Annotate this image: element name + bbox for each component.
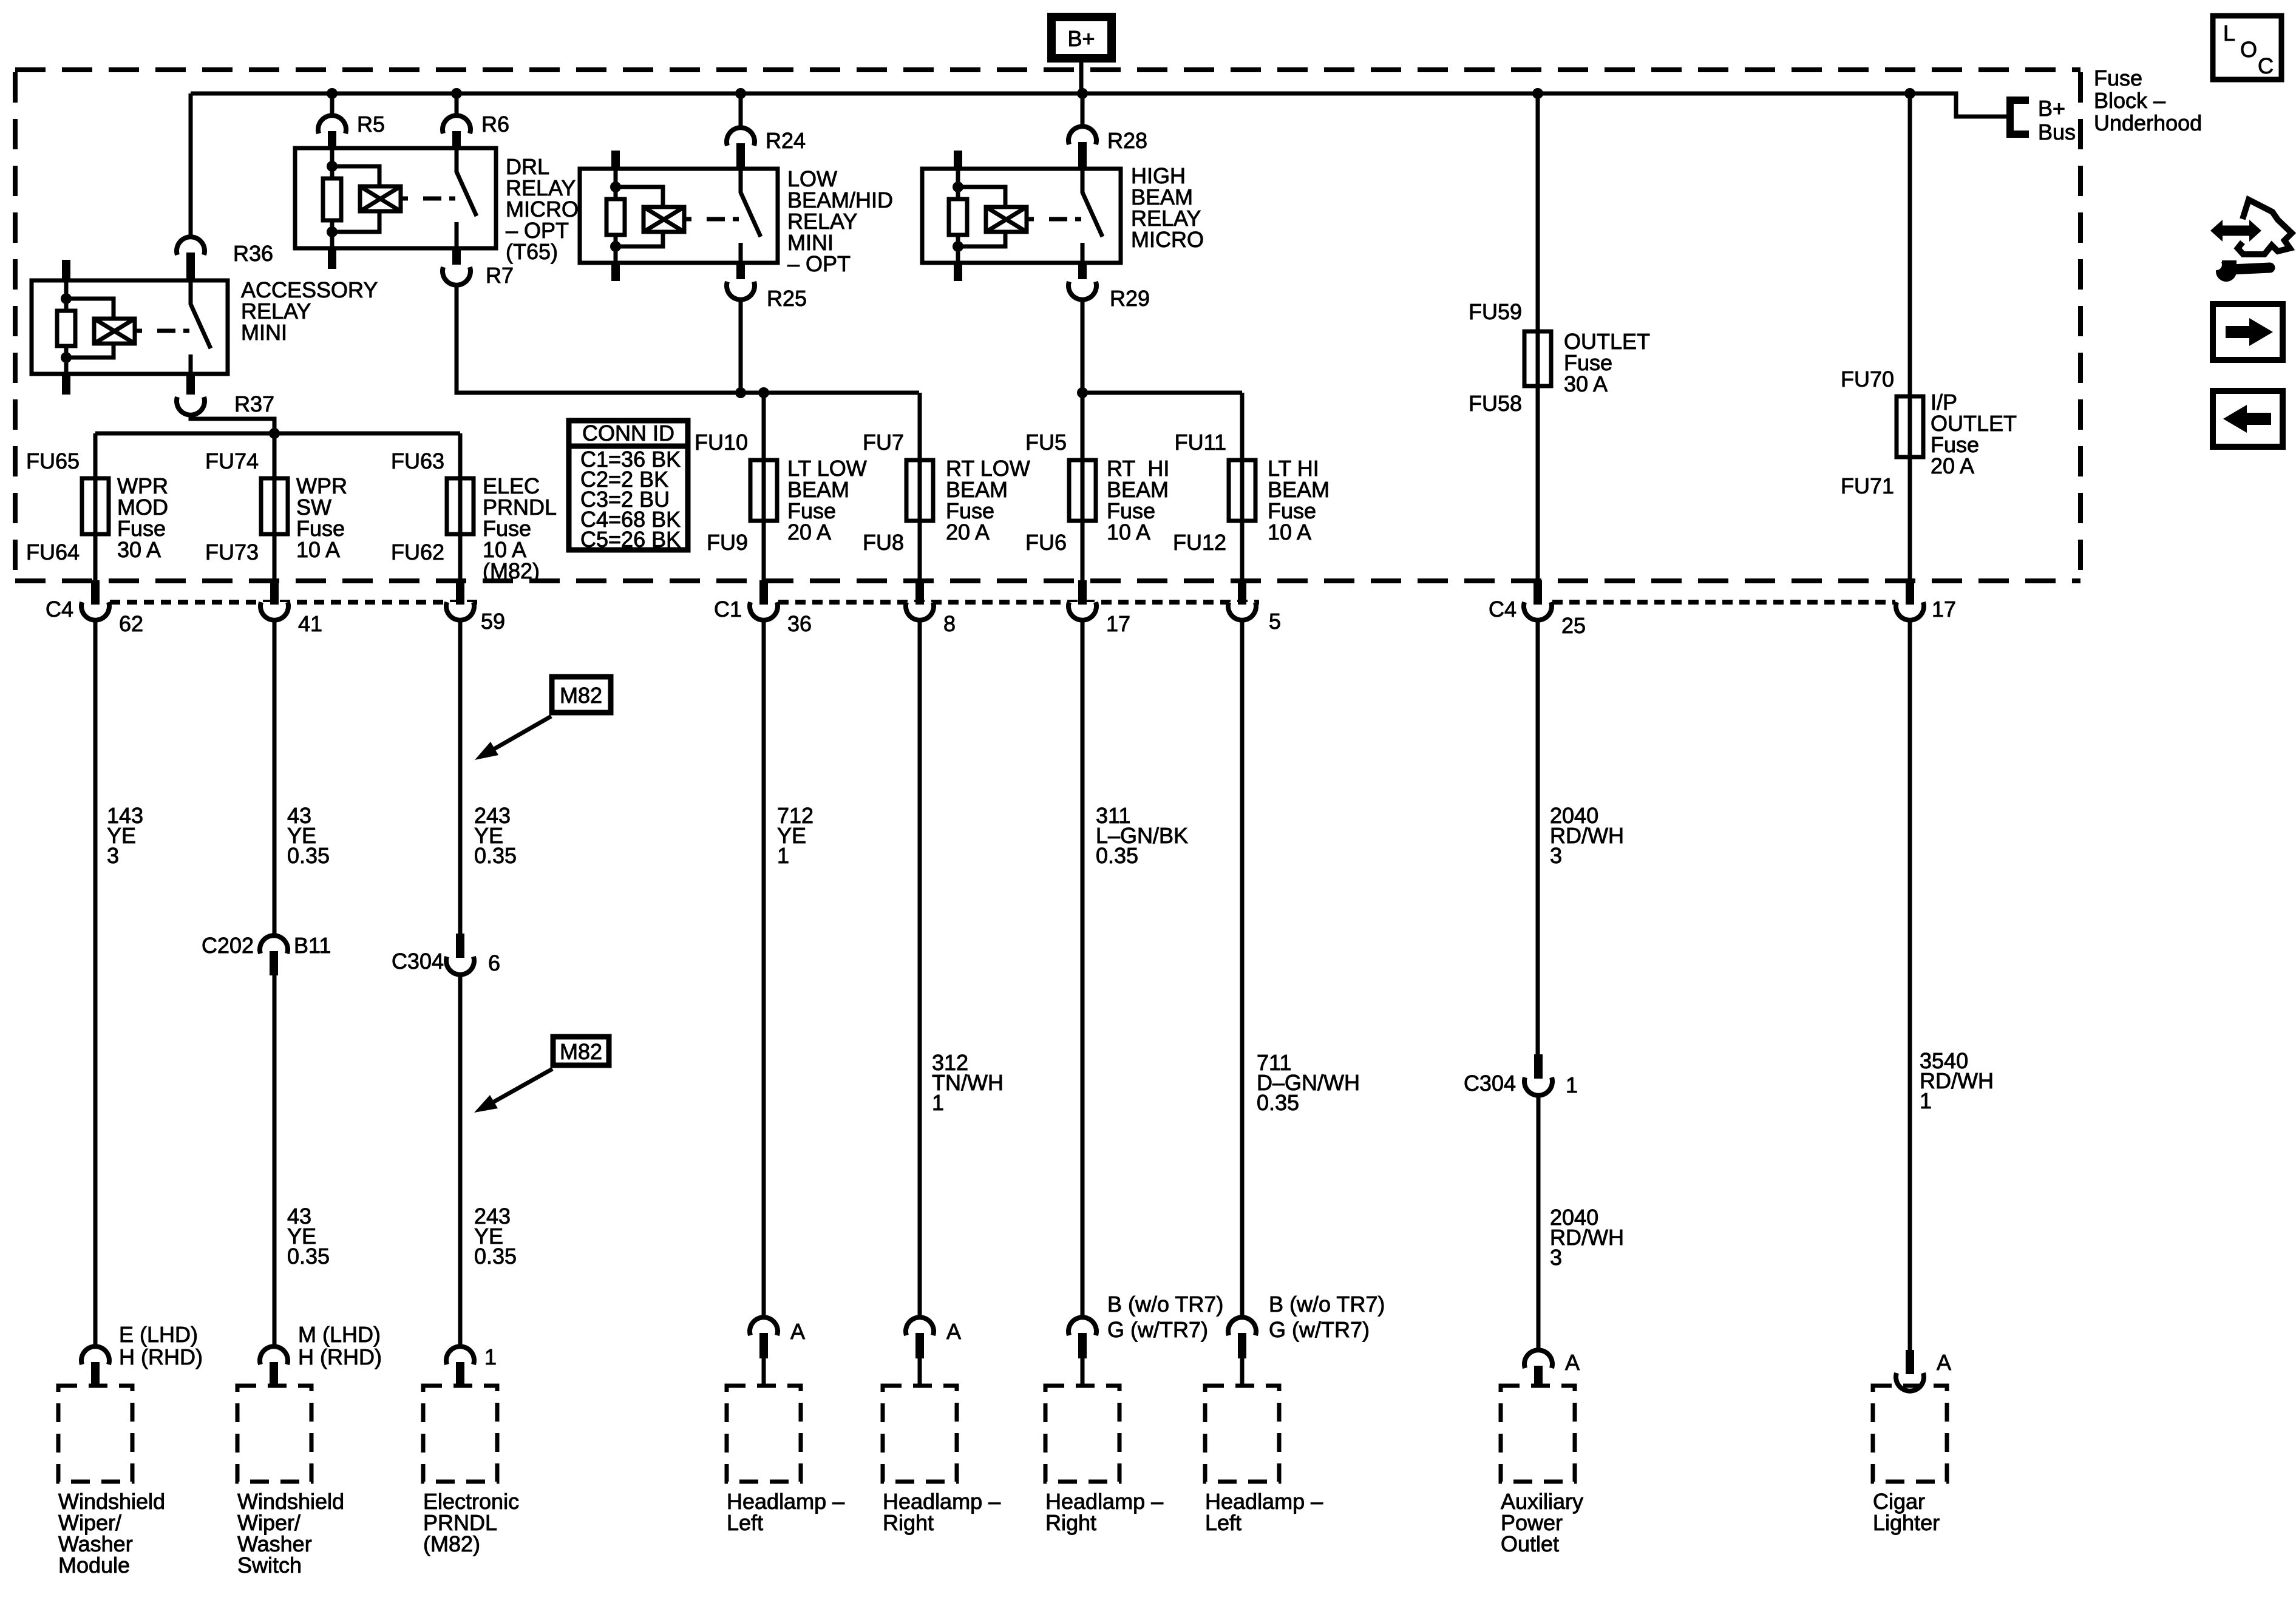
low beam relay actuating dashes <box>707 217 739 222</box>
svg-text:59: 59 <box>481 609 505 634</box>
svg-text:FU6: FU6 <box>1025 530 1067 555</box>
svg-text:0.35: 0.35 <box>1096 843 1138 868</box>
fuse RT HI BEAM fuse <box>1069 460 1096 521</box>
svg-text:1: 1 <box>484 1344 497 1369</box>
service icon wrench <box>2222 260 2237 271</box>
connector PRNDL pin 1 <box>446 1346 474 1364</box>
DRL relay switch <box>457 148 477 248</box>
svg-text:20 A: 20 A <box>1931 453 1974 478</box>
svg-text:CONN ID: CONN ID <box>582 421 674 446</box>
main B+ bus wire <box>191 92 1910 96</box>
fuse block dashed border left <box>13 72 18 581</box>
M82 callout 1 <box>552 677 611 713</box>
wire 311 L-GN/BK <box>1081 620 1085 1317</box>
high beam relay actuating dashes <box>1049 217 1081 222</box>
svg-text:62: 62 <box>119 611 143 636</box>
svg-text:30 A: 30 A <box>1564 371 1608 396</box>
wire bus down to R5 <box>330 93 335 115</box>
svg-text:FU7: FU7 <box>863 430 904 455</box>
high beam relay switch <box>1082 169 1102 263</box>
svg-text:B11: B11 <box>294 933 331 958</box>
M82 callout 2 <box>553 1037 609 1065</box>
svg-text:L: L <box>2223 21 2235 46</box>
connector C4 pin 25 <box>1524 602 1552 620</box>
svg-text:8: 8 <box>943 611 956 636</box>
svg-text:MINI: MINI <box>241 320 287 345</box>
svg-text:Fuse: Fuse <box>2094 66 2142 90</box>
svg-text:H (RHD): H (RHD) <box>298 1344 382 1369</box>
node bus/R24 <box>735 88 746 99</box>
accessory relay resistor <box>57 311 75 346</box>
connector C304 pin 6 <box>456 934 464 958</box>
accessory relay coil jumper wires <box>66 299 114 319</box>
svg-text:0.35: 0.35 <box>474 1244 517 1269</box>
svg-text:R24: R24 <box>766 128 806 153</box>
high beam relay resistor <box>949 199 967 235</box>
wire bus down to R28 <box>1081 93 1085 126</box>
fuse block dashed border top <box>15 67 2080 72</box>
wire OUTLET fuse column <box>1536 93 1540 580</box>
B+ battery feed terminal box <box>1051 17 1112 58</box>
svg-text:Right: Right <box>883 1510 934 1535</box>
component box windshield wiper/washer switch <box>237 1386 311 1482</box>
svg-text:R7: R7 <box>486 263 514 288</box>
svg-text:A: A <box>1565 1350 1580 1375</box>
wire bus down to R6 <box>455 93 459 115</box>
wire ELEC PRNDL fuse column <box>458 433 463 580</box>
high beam relay pin stub bottom-right <box>1078 263 1087 279</box>
wire 143 YE upper <box>93 620 98 1346</box>
wire 43 YE upper <box>273 620 277 935</box>
accessory relay node bottom <box>61 352 72 363</box>
wire WPR SW fuse column <box>273 433 277 580</box>
svg-text:FU8: FU8 <box>863 530 904 555</box>
connector R25 <box>727 282 755 300</box>
svg-text:FU9: FU9 <box>707 530 748 555</box>
svg-text:R29: R29 <box>1110 286 1150 311</box>
low beam relay node top <box>610 181 621 192</box>
svg-text:H (RHD): H (RHD) <box>119 1344 203 1369</box>
svg-text:C202: C202 <box>202 933 254 958</box>
high beam relay pin stub top-left <box>954 151 962 169</box>
M82 callout 2 leader arrow <box>493 1069 552 1102</box>
low beam relay pin stub top-left <box>611 151 620 169</box>
wiper fuse feed bus <box>95 432 460 436</box>
DRL relay coil <box>360 186 401 211</box>
svg-text:(T65): (T65) <box>506 239 558 264</box>
DRL relay coil jumper wires <box>332 166 379 186</box>
wire 3540 RD/WH <box>1908 620 1912 1350</box>
accessory relay actuating dashes <box>157 329 189 333</box>
wire RT HI BEAM fuse column <box>1081 393 1085 580</box>
svg-text:C5=26 BK: C5=26 BK <box>580 527 681 552</box>
svg-text:R36: R36 <box>233 241 273 266</box>
svg-text:O: O <box>2240 37 2257 62</box>
wire 712 YE <box>762 620 766 1317</box>
fuse block dashed border bottom <box>15 578 2080 583</box>
svg-text:17: 17 <box>1106 611 1130 636</box>
svg-text:G (w/TR7): G (w/TR7) <box>1107 1317 1208 1342</box>
connector C4 pin 59 <box>446 602 474 620</box>
DRL relay actuating dashes <box>423 197 455 201</box>
connector C4 pin 62 <box>81 602 109 620</box>
B+ Bus bracket <box>2010 100 2029 134</box>
svg-text:FU11: FU11 <box>1175 430 1226 455</box>
wire R37 to fuse feed bus <box>191 414 274 433</box>
connector C1 pin 5 <box>1228 602 1256 620</box>
svg-text:36: 36 <box>787 611 812 636</box>
wire WPR MOD fuse column <box>93 433 98 580</box>
node FU10 feed <box>758 387 769 398</box>
connector R7 <box>443 267 470 285</box>
connector R29 <box>1068 282 1096 300</box>
wire 243 YE upper <box>458 620 463 934</box>
low beam relay box <box>580 169 778 263</box>
svg-text:10 A: 10 A <box>1107 520 1150 544</box>
DRL relay coil side wire <box>330 148 335 178</box>
svg-text:FU63: FU63 <box>391 449 444 473</box>
wire R25 to fuse feed <box>739 299 743 393</box>
accessory relay pin stub top-left <box>62 260 70 280</box>
fuse I/P OUTLET fuse <box>1897 396 1923 457</box>
component box headlamp left hi <box>1205 1386 1279 1482</box>
connector face dotted line group C1 <box>778 600 1259 605</box>
high beam relay pin stub bottom-left <box>954 263 962 281</box>
wire 711 D-GN/WH <box>1240 620 1245 1317</box>
connector R37 <box>177 397 205 415</box>
fuse ELEC PRNDL fuse <box>447 478 474 534</box>
low beam relay resistor <box>606 199 625 235</box>
svg-text:B (w/o TR7): B (w/o TR7) <box>1269 1292 1385 1317</box>
svg-text:R6: R6 <box>481 112 509 137</box>
svg-text:10 A: 10 A <box>1268 520 1311 544</box>
node R37/FU74 feed <box>269 428 280 439</box>
LOC page icon box <box>2213 16 2281 80</box>
svg-text:41: 41 <box>298 611 322 636</box>
wire LT HI BEAM fuse column <box>1240 393 1245 580</box>
low beam relay node bottom <box>610 241 621 252</box>
connector C1 pin 8 <box>906 602 934 620</box>
svg-text:Underhood: Underhood <box>2094 110 2202 135</box>
svg-text:MICRO: MICRO <box>1131 227 1204 252</box>
svg-text:25: 25 <box>1561 613 1586 638</box>
service icon hand outline <box>2238 200 2292 254</box>
wire 2040 RD/WH upper <box>1536 620 1540 1054</box>
svg-text:Left: Left <box>1205 1510 1241 1535</box>
svg-text:C1: C1 <box>714 597 742 622</box>
svg-text:A: A <box>1937 1350 1951 1375</box>
wire 43 YE lower <box>273 975 277 1346</box>
svg-text:Lighter: Lighter <box>1873 1510 1940 1535</box>
fuse WPR MOD fuse <box>82 478 109 534</box>
wire R29 to fuse feed <box>1082 299 1242 393</box>
connector R24 <box>727 127 755 146</box>
service icon double arrow <box>2220 226 2252 236</box>
wire 312 TN/WH <box>918 620 922 1317</box>
svg-text:Switch: Switch <box>237 1553 302 1578</box>
fuse LT LOW BEAM fuse <box>750 460 777 521</box>
svg-text:20 A: 20 A <box>787 520 831 544</box>
accessory relay node top <box>61 293 72 304</box>
low beam relay coil side wire <box>614 169 618 199</box>
low beam relay pin stub bottom-left <box>611 263 620 281</box>
connector headlamp left hi pin B/G <box>1228 1317 1256 1335</box>
svg-text:5: 5 <box>1269 609 1281 634</box>
svg-text:C4: C4 <box>1489 597 1517 622</box>
svg-text:FU74: FU74 <box>205 449 259 473</box>
wire I/P OUTLET fuse column <box>1908 93 1912 580</box>
component box headlamp left <box>727 1386 801 1482</box>
svg-text:FU73: FU73 <box>205 540 259 564</box>
accessory relay pin stub bottom-left <box>62 374 70 395</box>
wire RT LOW BEAM fuse column <box>918 393 922 580</box>
svg-text:Right: Right <box>1045 1510 1096 1535</box>
connector wiper switch pin <box>260 1346 288 1364</box>
svg-text:0.35: 0.35 <box>474 843 517 868</box>
low beam relay coil jumper wires <box>616 187 663 207</box>
connector wiper module pin <box>81 1346 109 1364</box>
connector C5 pin 17 <box>1896 602 1924 620</box>
high beam relay node top <box>953 181 963 192</box>
connector headlamp right pin A <box>906 1317 934 1335</box>
node bus/R6 <box>451 88 462 99</box>
svg-text:1: 1 <box>777 843 789 868</box>
connector headlamp left pin A <box>750 1317 778 1335</box>
high beam relay box <box>922 169 1121 263</box>
connector face dotted line group C4/C5 right <box>1552 600 1895 605</box>
svg-text:R28: R28 <box>1107 128 1147 153</box>
svg-text:C304: C304 <box>1464 1071 1516 1096</box>
svg-text:FU65: FU65 <box>26 449 80 473</box>
DRL relay node top <box>327 161 338 172</box>
node bus/B+ Bus tap <box>1904 88 1915 99</box>
DRL relay resistor <box>323 178 341 220</box>
wire B+ to bus <box>1079 63 1084 93</box>
high beam relay coil side wire <box>956 169 960 199</box>
connector C1 pin 17 <box>1068 602 1096 620</box>
node R25 feed <box>735 387 746 398</box>
node bus/R5 <box>327 88 338 99</box>
svg-text:FU58: FU58 <box>1469 391 1522 416</box>
svg-text:0.35: 0.35 <box>287 843 330 868</box>
high beam relay coil jumper wires <box>958 187 1005 207</box>
wire bus down to R36 <box>189 93 193 237</box>
node bus/FU59 <box>1532 88 1543 99</box>
connector C202 B11 <box>260 935 288 954</box>
wire bus tap to B+ Bus bracket <box>1910 93 2007 117</box>
svg-text:FU12: FU12 <box>1173 530 1226 555</box>
svg-text:FU62: FU62 <box>391 540 444 564</box>
svg-text:A: A <box>790 1319 805 1344</box>
svg-text:B+: B+ <box>1067 26 1095 51</box>
fuse LT HI BEAM fuse <box>1229 460 1255 521</box>
low beam relay pin stub bottom-right <box>736 263 745 279</box>
fuse WPR SW fuse <box>261 478 288 534</box>
connector C304 pin 1 <box>1534 1054 1543 1079</box>
component box auxiliary power outlet <box>1501 1386 1575 1482</box>
accessory relay box <box>32 280 228 374</box>
svg-text:M (LHD): M (LHD) <box>298 1322 381 1347</box>
DRL relay box <box>295 148 496 248</box>
svg-text:30 A: 30 A <box>117 537 161 562</box>
fuse block dashed border right <box>2078 72 2083 581</box>
svg-text:M82: M82 <box>560 1039 602 1064</box>
svg-text:FU71: FU71 <box>1841 473 1894 498</box>
wire 243 YE lower <box>458 974 463 1346</box>
svg-text:(M82): (M82) <box>423 1531 480 1556</box>
svg-text:Outlet: Outlet <box>1501 1531 1559 1556</box>
svg-text:C: C <box>2258 53 2274 78</box>
svg-text:20 A: 20 A <box>946 520 990 544</box>
svg-text:Block –: Block – <box>2094 88 2165 113</box>
svg-text:FU64: FU64 <box>26 540 80 564</box>
connector headlamp right hi pin B/G <box>1068 1317 1096 1335</box>
svg-text:Bus: Bus <box>2038 120 2076 144</box>
M82 callout 1 leader arrow <box>493 716 551 750</box>
svg-text:G (w/TR7): G (w/TR7) <box>1269 1317 1370 1342</box>
svg-text:0.35: 0.35 <box>287 1244 330 1269</box>
accessory relay switch <box>191 280 211 374</box>
connector R28 <box>1068 126 1096 144</box>
svg-text:B (w/o TR7): B (w/o TR7) <box>1107 1292 1223 1317</box>
connector C4 pin 41 <box>260 602 288 620</box>
high beam relay coil <box>986 207 1027 232</box>
svg-text:R25: R25 <box>767 286 807 311</box>
connector R6 <box>443 115 470 134</box>
svg-text:3: 3 <box>107 843 119 868</box>
svg-text:A: A <box>946 1319 961 1344</box>
connector R5 <box>318 115 346 134</box>
svg-text:(M82): (M82) <box>483 558 540 583</box>
fuse OUTLET fuse <box>1524 331 1551 386</box>
svg-text:3: 3 <box>1550 843 1562 868</box>
svg-text:10 A: 10 A <box>296 537 340 562</box>
svg-text:C304: C304 <box>392 949 444 974</box>
svg-text:C4: C4 <box>46 597 73 622</box>
accessory relay coil <box>94 319 135 344</box>
svg-text:3: 3 <box>1550 1245 1562 1270</box>
high beam relay node bottom <box>953 241 963 252</box>
svg-text:R37: R37 <box>234 392 274 416</box>
DRL relay pin stub bottom-right <box>452 248 461 265</box>
low beam relay switch <box>741 169 761 263</box>
svg-text:M82: M82 <box>560 683 602 708</box>
svg-text:0.35: 0.35 <box>1257 1090 1299 1115</box>
svg-text:17: 17 <box>1932 597 1956 622</box>
node R29 feed <box>1077 387 1088 398</box>
backward arrow icon box <box>2213 391 2283 447</box>
low beam relay coil <box>644 207 684 232</box>
connector cigar lighter pin A <box>1906 1350 1914 1374</box>
component box headlamp right hi <box>1045 1386 1119 1482</box>
connector aux outlet pin A <box>1524 1350 1552 1368</box>
component box headlamp right <box>883 1386 957 1482</box>
svg-text:E (LHD): E (LHD) <box>119 1322 198 1347</box>
DRL relay node bottom <box>327 226 338 237</box>
svg-text:R5: R5 <box>357 112 385 137</box>
svg-text:FU5: FU5 <box>1025 430 1067 455</box>
node bus/B+/R28 <box>1077 88 1088 99</box>
DRL relay pin stub bottom-left <box>328 248 336 269</box>
svg-text:B+: B+ <box>2038 96 2065 121</box>
forward arrow icon box <box>2213 304 2283 360</box>
svg-text:Left: Left <box>727 1510 763 1535</box>
wire 2040 RD/WH lower <box>1537 1095 1541 1349</box>
component box electronic PRNDL <box>423 1386 497 1482</box>
CONN ID table <box>569 421 688 550</box>
svg-text:FU10: FU10 <box>695 430 748 455</box>
fuse RT LOW BEAM fuse <box>906 460 933 521</box>
wire bus down to R24 <box>739 93 743 127</box>
wire LT LOW BEAM fuse column <box>762 393 766 580</box>
svg-text:Module: Module <box>58 1553 130 1578</box>
svg-text:FU70: FU70 <box>1841 367 1894 392</box>
svg-text:– OPT: – OPT <box>787 251 851 276</box>
svg-text:1: 1 <box>1566 1073 1578 1097</box>
component box cigar lighter <box>1873 1386 1947 1482</box>
svg-text:FU59: FU59 <box>1469 299 1522 324</box>
accessory relay coil side wire <box>64 280 69 311</box>
svg-text:1: 1 <box>1920 1088 1932 1113</box>
svg-text:6: 6 <box>488 951 500 975</box>
connector R36 <box>177 237 205 255</box>
connector C1 pin 36 <box>750 602 778 620</box>
component box windshield wiper/washer module <box>58 1386 132 1482</box>
wire R7 to low-beam fuse feed <box>457 284 919 393</box>
svg-text:1: 1 <box>932 1090 944 1115</box>
accessory relay pin stub bottom-right <box>186 374 195 395</box>
connector face dotted line group C4 <box>110 600 477 605</box>
